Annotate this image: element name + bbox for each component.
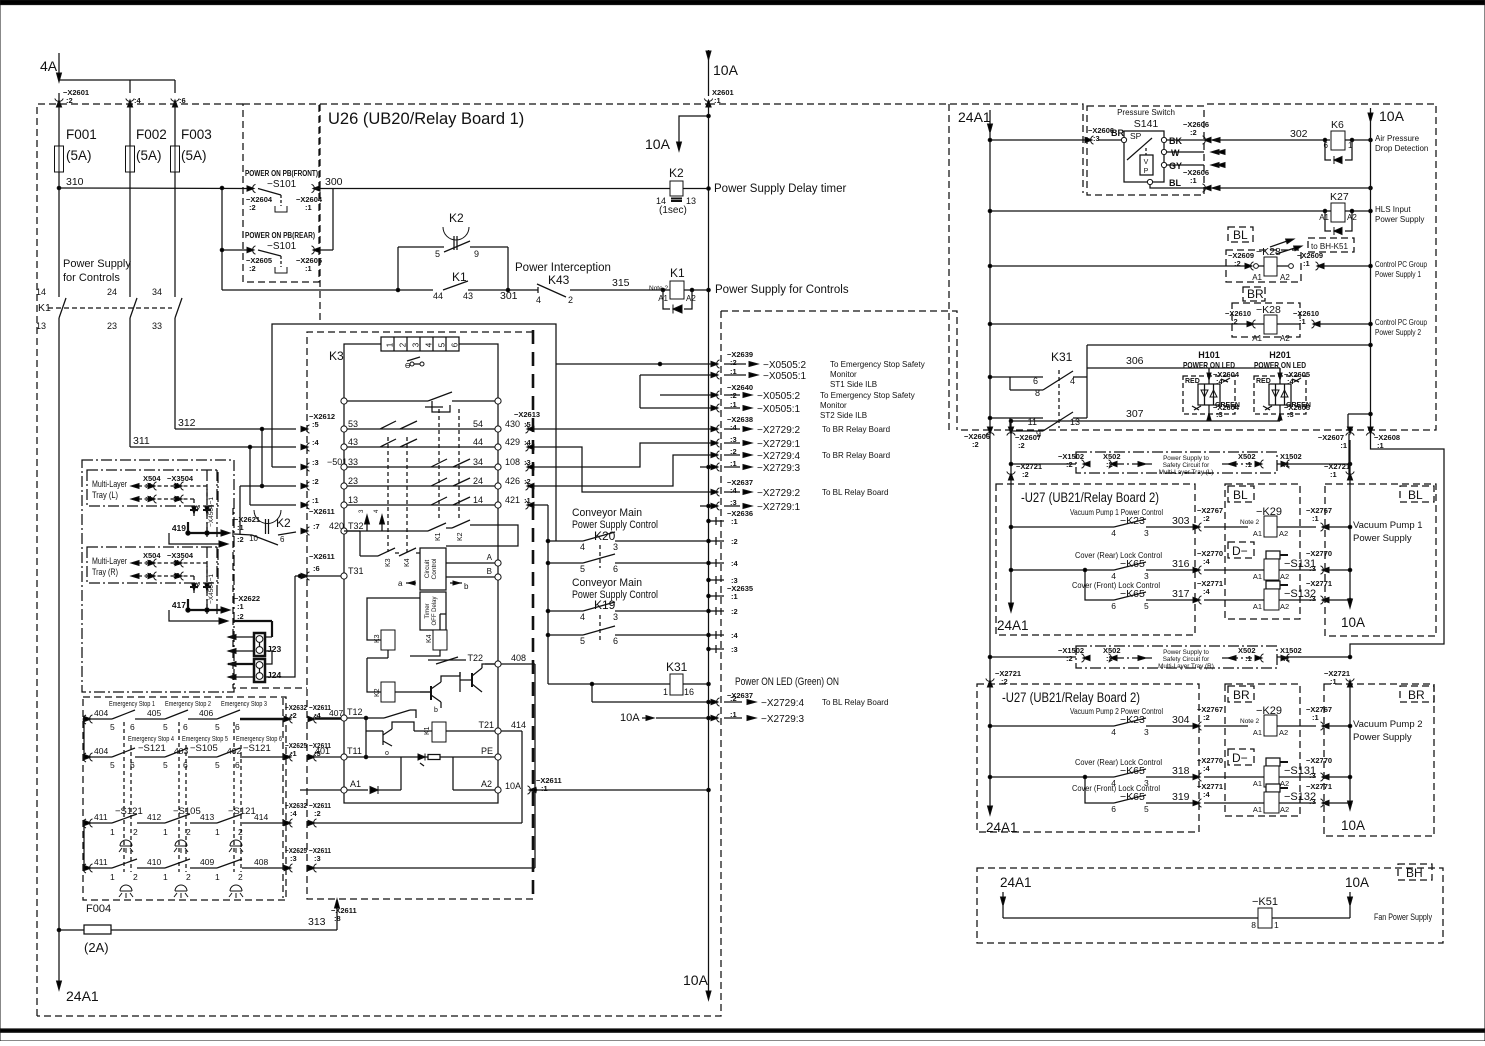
connector -X2770:4 2 [1193, 773, 1202, 781]
svg-text:2: 2 [568, 295, 573, 305]
svg-text::2: :2 [1001, 677, 1008, 686]
svg-text::1: :1 [312, 496, 319, 505]
svg-text::1: :1 [1330, 677, 1337, 686]
svg-text:4: 4 [1111, 528, 1116, 538]
svg-text::1: :1 [1340, 441, 1347, 450]
svg-text:−S105: −S105 [190, 743, 218, 754]
connector -X2606:2 bottom [986, 427, 994, 436]
svg-text:409: 409 [200, 857, 214, 867]
connector -X2640:2 [660, 394, 718, 396]
svg-text::1: :1 [1303, 259, 1310, 268]
svg-text::2: :2 [1231, 317, 1238, 326]
svg-text:ST1 Side ILB: ST1 Side ILB [830, 380, 877, 389]
svg-text:T31: T31 [348, 566, 364, 576]
svg-text::2: :2 [730, 358, 737, 367]
svg-text:1: 1 [663, 687, 668, 697]
wire X1502 L right [1277, 463, 1350, 465]
svg-text:4: 4 [1070, 376, 1075, 386]
svg-text:Control PC Group: Control PC Group [1375, 318, 1427, 327]
svg-text:4: 4 [580, 542, 585, 552]
svg-text::6: :6 [313, 564, 320, 573]
svg-text:3: 3 [1144, 528, 1149, 538]
dashed box: K29/S131/S132 group 1 [1225, 484, 1300, 619]
svg-text:−X2635: −X2635 [727, 584, 753, 593]
svg-text:13: 13 [686, 196, 696, 206]
svg-text:Emergency Stop 2: Emergency Stop 2 [165, 701, 211, 708]
connector -X2639:2 [711, 360, 720, 368]
svg-text:6: 6 [613, 564, 618, 574]
svg-text:T21: T21 [478, 720, 494, 730]
svg-text:To BL Relay Board: To BL Relay Board [822, 488, 888, 497]
24A1 right bus [989, 133, 991, 684]
svg-text:A2: A2 [1280, 334, 1290, 343]
connector -X2771 right 2 [1321, 799, 1330, 807]
wire: top feed bus [59, 79, 175, 81]
control circuit box [420, 548, 446, 590]
dash-dot box: multi-layer tray interface [82, 460, 234, 692]
svg-text:13: 13 [36, 321, 46, 331]
svg-text:−S121: −S121 [243, 743, 271, 754]
svg-text:A2: A2 [1280, 779, 1289, 788]
svg-text:1: 1 [386, 342, 395, 347]
svg-text:430: 430 [505, 419, 520, 429]
svg-text:44: 44 [433, 291, 443, 301]
svg-text:Multi-Layer Tray (R): Multi-Layer Tray (R) [1158, 663, 1214, 670]
svg-text:4: 4 [580, 612, 585, 622]
svg-text:404: 404 [94, 708, 108, 718]
label box BH [1398, 864, 1432, 880]
svg-text:A: A [487, 553, 493, 562]
dashed box: vacuum pump 2 power supply [1324, 684, 1434, 836]
svg-text:A2: A2 [481, 779, 492, 789]
connector -X2639:1 [640, 374, 718, 376]
svg-text::3: :3 [290, 854, 297, 863]
svg-text:−X2611: −X2611 [309, 552, 335, 561]
wire X1502 R left [990, 656, 1076, 658]
svg-text:34: 34 [473, 457, 483, 467]
connector -X2721:2 (2) [986, 679, 994, 688]
svg-text:23: 23 [348, 476, 358, 486]
svg-text:(5A): (5A) [66, 148, 92, 163]
internal top contact row [341, 398, 347, 404]
dashed box K28-2 [1232, 303, 1300, 337]
svg-text:RED: RED [1185, 378, 1200, 385]
dashed box: emergency stop group [83, 697, 286, 900]
wire H201 drop [1279, 368, 1281, 376]
svg-text::2: :2 [237, 612, 244, 621]
connector -X2637:3 wire 421 [533, 504, 548, 506]
svg-text:−X2729:3: −X2729:3 [757, 463, 801, 474]
svg-text:a: a [398, 579, 403, 588]
svg-text::3: :3 [1309, 564, 1316, 573]
svg-text::1: :1 [1312, 713, 1319, 722]
svg-text::3: :3 [524, 458, 531, 467]
svg-text:426: 426 [505, 476, 520, 486]
svg-text:K27: K27 [1330, 191, 1349, 203]
svg-text:−X0505:1: −X0505:1 [763, 371, 807, 382]
connector -X2721:1 (1) [1346, 472, 1354, 481]
svg-text::6: :6 [179, 96, 186, 105]
dashed label box BL 1 [1228, 486, 1254, 502]
connector -X2771:4 2 [1193, 799, 1202, 807]
svg-text::2: :2 [1234, 259, 1241, 268]
svg-text:2: 2 [186, 827, 191, 837]
svg-text:Vacuum Pump 1: Vacuum Pump 1 [1353, 520, 1423, 531]
svg-text:−X4504−1: −X4504−1 [208, 574, 215, 604]
svg-text:K1: K1 [435, 532, 442, 541]
svg-text:5: 5 [438, 342, 447, 347]
contacts K1 K2 above labels [428, 523, 446, 531]
svg-text:6: 6 [280, 535, 285, 544]
dashed label box D 2 [1228, 749, 1254, 765]
svg-text::4: :4 [730, 423, 737, 432]
dashed enclosure: power supply for controls (left) [37, 104, 243, 1016]
svg-text:H101: H101 [1198, 350, 1220, 360]
svg-text:404: 404 [94, 746, 108, 756]
svg-text:3: 3 [613, 612, 618, 622]
svg-text:Monitor: Monitor [820, 401, 847, 410]
svg-text:8: 8 [1251, 920, 1256, 930]
dashed box: K29/S131/S132 group 2 [1225, 684, 1300, 816]
wire 345 to right bus [1087, 344, 1371, 346]
svg-text:K6: K6 [1331, 119, 1344, 131]
dash-dot box: power supply to safety circuit R [1076, 646, 1277, 668]
svg-text:3: 3 [1144, 727, 1149, 737]
10A feed arrow into U26 [679, 116, 709, 146]
ES linkage dashes [123, 722, 125, 872]
svg-text:−X2729:4: −X2729:4 [757, 451, 801, 462]
svg-text::1: :1 [305, 203, 312, 212]
svg-text:A1: A1 [1253, 728, 1262, 737]
svg-text:to BH-K51: to BH-K51 [1311, 242, 1348, 251]
svg-text::2: :2 [290, 711, 297, 720]
connector -X2611:8 [336, 905, 338, 930]
svg-text:4: 4 [536, 295, 541, 305]
wire 301 lower [222, 289, 433, 291]
wire strip to left bus [344, 344, 381, 398]
svg-text:−X0505:2: −X0505:2 [763, 360, 807, 371]
solenoid -S132 2 [1266, 784, 1280, 792]
svg-text:A1: A1 [1253, 779, 1262, 788]
wire F003 to K1 contact [174, 172, 176, 297]
ES connector row1 [284, 715, 293, 723]
wire row4 to 408 vertical [315, 867, 535, 869]
svg-text::4: :4 [1203, 790, 1210, 799]
svg-text:−X2729:4: −X2729:4 [761, 698, 805, 709]
dashed box K28-1 [1226, 250, 1301, 282]
svg-text:T11: T11 [347, 746, 362, 756]
tray (L) down connectors [193, 499, 195, 518]
dashed enclosure: U26 board outline [319, 104, 321, 324]
svg-text::3: :3 [1093, 134, 1100, 143]
right bus of K3 block [497, 404, 499, 787]
svg-text:303: 303 [1172, 515, 1190, 527]
svg-text:Control: Control [431, 558, 438, 580]
svg-text:ST2 Side ILB: ST2 Side ILB [820, 411, 867, 420]
arrows on T32 row [366, 519, 368, 531]
svg-text:16: 16 [684, 687, 694, 697]
dashed box: U27 relay board 2 (vacuum pump 1) [996, 484, 1195, 635]
svg-text:6: 6 [613, 636, 618, 646]
svg-text::4: :4 [524, 438, 531, 447]
svg-text:414: 414 [254, 812, 268, 822]
svg-text:Pressure Switch: Pressure Switch [1117, 108, 1175, 117]
svg-text:−X2609: −X2609 [1228, 251, 1254, 260]
svg-text::4: :4 [290, 809, 297, 818]
transistor pair near T22 [428, 659, 466, 661]
svg-text:6: 6 [235, 760, 240, 770]
svg-text::2: :2 [1190, 128, 1197, 137]
svg-text:405: 405 [147, 708, 161, 718]
connector -X2601:4 [126, 99, 134, 108]
connector -X2637:4 wire 429 [533, 447, 718, 492]
svg-text:−X2771: −X2771 [1306, 579, 1332, 588]
10A arrow U27-1 [1348, 599, 1353, 608]
dashed box: U27 relay board 2 (vacuum pump 2) [977, 684, 1199, 832]
svg-text::5: :5 [524, 420, 531, 429]
tray (R) down connectors [193, 576, 195, 595]
arrows to BH-K51 [1270, 240, 1290, 247]
svg-text::2: :2 [1022, 470, 1029, 479]
svg-text:(5A): (5A) [181, 148, 207, 163]
svg-text:−X2729:3: −X2729:3 [761, 714, 805, 725]
svg-text:−K28: −K28 [1256, 304, 1281, 316]
connector -X2638:3 wire 108 [533, 443, 718, 467]
K1 drive contact [374, 717, 384, 719]
svg-text:Cover (Rear) Lock Control: Cover (Rear) Lock Control [1075, 551, 1162, 560]
svg-text:SP: SP [1130, 131, 1142, 141]
svg-text:2: 2 [399, 342, 408, 347]
svg-text::4: :4 [730, 486, 737, 495]
connector -X2640:1 [640, 407, 718, 409]
svg-text:A2: A2 [1280, 572, 1289, 581]
wire X2622:2 to J23 [234, 620, 272, 622]
svg-text:A1: A1 [350, 779, 361, 789]
svg-text:414: 414 [511, 720, 526, 730]
svg-text:408: 408 [511, 653, 526, 663]
svg-text:D−: D− [1232, 544, 1248, 558]
svg-text:411: 411 [94, 812, 108, 822]
svg-text:−K28: −K28 [1256, 246, 1281, 258]
K3 row 13-14 wire 421 [301, 501, 310, 509]
svg-text:A1: A1 [1253, 602, 1262, 611]
node A [446, 562, 495, 564]
svg-text:BR: BR [1408, 688, 1425, 702]
svg-text:Note 2: Note 2 [1240, 519, 1260, 526]
K20 contact row 2 [548, 562, 583, 564]
svg-text::2: :2 [249, 264, 256, 273]
wire 24A1 to pressure switch [990, 139, 1085, 141]
solenoid -S132 1 [1266, 581, 1280, 589]
svg-text:2: 2 [238, 827, 243, 837]
svg-text:K31: K31 [666, 660, 688, 674]
svg-text:6: 6 [451, 342, 460, 347]
svg-text:Multi-Layer Tray (L): Multi-Layer Tray (L) [1159, 469, 1214, 476]
svg-text:K2: K2 [457, 532, 464, 541]
svg-text:5: 5 [215, 722, 220, 732]
svg-text:Power Supply 2: Power Supply 2 [1375, 328, 1421, 337]
off delay timer box [420, 592, 446, 630]
svg-text:−K51: −K51 [1252, 896, 1278, 908]
svg-text:K3: K3 [329, 349, 344, 363]
svg-text::1: :1 [731, 517, 738, 526]
svg-text:3: 3 [412, 342, 421, 347]
svg-text:−X2729:1: −X2729:1 [757, 502, 801, 513]
node B [446, 576, 495, 578]
svg-text::4: :4 [1203, 764, 1210, 773]
svg-text:33: 33 [152, 321, 162, 331]
svg-text:−X2721: −X2721 [1016, 462, 1042, 471]
wire F002 to K1 contact [129, 172, 131, 297]
svg-text:PE: PE [481, 746, 493, 756]
svg-text:24A1: 24A1 [958, 109, 991, 125]
svg-text:−X2771: −X2771 [1197, 579, 1223, 588]
stub -X2636:3 [709, 579, 725, 581]
pressure switch S141 body [1124, 131, 1164, 182]
connector J24 [254, 659, 265, 682]
K3 row 43-44 wire 429 [301, 443, 310, 451]
svg-text:Fan Power Supply: Fan Power Supply [1374, 912, 1432, 922]
svg-text:K3: K3 [374, 634, 381, 643]
contact slashes K1/K2 columns rows 33/23/13 [431, 459, 447, 467]
svg-text:Vacuum Pump 1 Power Control: Vacuum Pump 1 Power Control [1070, 508, 1163, 517]
svg-text:406: 406 [199, 708, 213, 718]
svg-text:Safety Circuit for: Safety Circuit for [1163, 462, 1210, 469]
svg-text:306: 306 [1126, 355, 1144, 367]
svg-text:4: 4 [1111, 727, 1116, 737]
svg-text:2: 2 [186, 872, 191, 882]
svg-text::3: :3 [1287, 410, 1294, 419]
dashed box: J23/J24 area [233, 508, 307, 688]
svg-text:317: 317 [1172, 588, 1190, 600]
connector -X2721:2 (1) [1007, 472, 1015, 481]
connector X2601:1 [704, 99, 712, 108]
svg-text:318: 318 [1172, 765, 1190, 777]
svg-text:A1: A1 [1252, 273, 1262, 282]
stub -X2635:1 [709, 595, 725, 597]
svg-text:BR: BR [1247, 287, 1264, 301]
wire F001 drop [58, 93, 60, 146]
wire rear button branch [221, 188, 223, 290]
wire K2 coil to bus [683, 188, 709, 190]
svg-text:K31: K31 [1051, 350, 1073, 364]
svg-text:10A: 10A [620, 712, 640, 724]
svg-text:407: 407 [329, 708, 343, 718]
ES row1 bracket connector [84, 715, 93, 723]
connector -X2606:3 [1085, 136, 1094, 144]
svg-text:b: b [464, 582, 469, 591]
svg-text:o: o [385, 750, 389, 757]
wire 417 thin loop [169, 610, 220, 621]
svg-text:A1: A1 [1252, 334, 1262, 343]
svg-text:10A: 10A [1345, 875, 1369, 890]
svg-text:Power Supply to: Power Supply to [1163, 649, 1209, 656]
svg-text:To Emergency Stop Safety: To Emergency Stop Safety [820, 391, 915, 400]
svg-text:−X2610: −X2610 [1225, 309, 1251, 318]
svg-text:34: 34 [152, 287, 162, 297]
svg-text::2: :2 [312, 477, 319, 486]
svg-text:b: b [434, 707, 438, 714]
svg-text:P: P [1144, 168, 1149, 175]
svg-text:−X0505:2: −X0505:2 [757, 391, 801, 402]
connector -X2638:4 wire 430 [533, 428, 718, 430]
svg-text:BL: BL [1169, 178, 1181, 188]
connector -X2770 right 1 [1321, 566, 1330, 574]
svg-text:24A1: 24A1 [997, 618, 1029, 633]
svg-text::4: :4 [314, 711, 321, 720]
svg-text::2: :2 [314, 809, 321, 818]
svg-text:6: 6 [1111, 804, 1116, 814]
pushbutton S101 rear [247, 246, 256, 254]
svg-text:BK: BK [1169, 136, 1182, 146]
wire strip to right bus [459, 344, 498, 398]
svg-text:2: 2 [238, 872, 243, 882]
svg-text::2: :2 [1203, 514, 1210, 523]
dashed box: POWER ON PB S101 [243, 104, 319, 282]
dashed box: U26 output connector group [721, 311, 957, 430]
K19 contact row 2 [548, 634, 583, 636]
svg-text:Emergency Stop 5: Emergency Stop 5 [182, 736, 228, 743]
svg-text::1: :1 [524, 496, 531, 505]
svg-text::2: :2 [524, 477, 531, 486]
svg-text:1: 1 [215, 827, 220, 837]
svg-text:−X2609: −X2609 [1297, 251, 1323, 260]
svg-text:Emergency Stop 4: Emergency Stop 4 [128, 736, 174, 743]
svg-text:4A: 4A [40, 58, 58, 74]
svg-text:K43: K43 [548, 273, 570, 287]
ES connector row2 [284, 753, 293, 761]
svg-text:408: 408 [254, 857, 268, 867]
connector -X2767:1 1 [1321, 523, 1330, 531]
svg-text::2: :2 [1018, 441, 1025, 450]
transistor 3 [382, 731, 384, 745]
svg-text:1: 1 [215, 872, 220, 882]
ES row4 bracket [84, 864, 93, 872]
svg-text:6: 6 [130, 722, 135, 732]
svg-text:5: 5 [163, 760, 168, 770]
stub -X2636:1 [709, 520, 725, 522]
routing verticals to X2612 [261, 429, 263, 486]
dash-dot box: power supply to safety circuit L [1076, 452, 1277, 473]
svg-text:Circuit: Circuit [424, 560, 431, 579]
svg-text:T22: T22 [467, 653, 483, 663]
wire row3 to T21 vertical [315, 822, 522, 824]
svg-text:−X0505:1: −X0505:1 [757, 404, 801, 415]
connector -X2601:2 [55, 99, 63, 108]
svg-text:Cover (Rear) Lock Control: Cover (Rear) Lock Control [1075, 758, 1162, 767]
contact slashes K3 columns rows 53/43 [380, 421, 396, 429]
svg-text:5: 5 [110, 722, 115, 732]
svg-text:−X2767: −X2767 [1197, 506, 1223, 515]
wire X2639 feeder [556, 363, 718, 365]
connector -X2767:2 2 [1193, 722, 1202, 730]
svg-text:2: 2 [133, 827, 138, 837]
svg-text:315: 315 [612, 277, 630, 289]
svg-text:HLS Input: HLS Input [1375, 205, 1411, 214]
svg-text:A2: A2 [1280, 602, 1289, 611]
svg-text::3: :3 [1309, 797, 1316, 806]
svg-text:A2: A2 [1280, 273, 1290, 282]
svg-text:9: 9 [474, 249, 479, 259]
svg-text:24A1: 24A1 [986, 820, 1018, 835]
svg-text:A1: A1 [1253, 572, 1262, 581]
wire 300 to K2 coil [333, 188, 670, 190]
svg-text:8: 8 [1035, 388, 1040, 398]
24A1 arrow U27-2 [988, 806, 993, 815]
wire X1502 R right [1277, 656, 1350, 658]
svg-text:−X2729:2: −X2729:2 [757, 425, 801, 436]
connector -X2638:1 [700, 466, 718, 468]
